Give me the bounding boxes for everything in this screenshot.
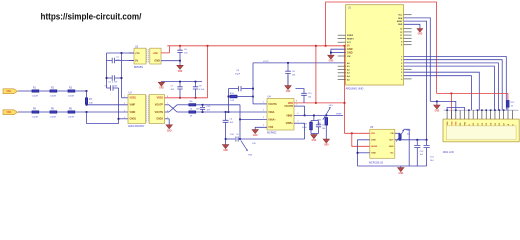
wire iso +5V rail vertical [121,53,123,98]
svg-text:SHDN: SHDN [371,146,378,148]
wire R6 to AMC pin3 VINN [75,111,128,113]
LCD pin header line [444,109,519,111]
U1 left pin stubs upper [338,34,346,36]
junction iso rail top [121,52,123,54]
wire DC-DC GND to C6 node [161,60,180,62]
U1 D0 stub [404,78,412,80]
svg-text:U4: U4 [268,95,272,98]
svg-text:VSS: VSS [447,121,449,126]
wire C4 bottom stem [225,122,227,144]
junction VREF at trimmer [325,115,327,117]
5V top loop [326,2,437,93]
wire C12 top [318,121,320,125]
wire VSS stub [255,127,267,129]
trimmer RV2 arrow [396,130,403,141]
svg-text:GND: GND [389,146,394,148]
junction gnd pins [330,52,332,54]
svg-text:10K: 10K [89,103,93,105]
svg-text:VOUTP: VOUTP [155,104,164,107]
wire SDA [404,18,431,102]
wire +Vin red up to 5V rail [168,46,170,53]
svg-text:GND: GND [159,88,164,90]
LCD pin junction dots [446,109,448,111]
trimmer RV1 arrow [323,108,330,120]
wire bottom line to R9 [177,111,189,113]
svg-text:2: 2 [124,103,125,105]
svg-text:U2: U2 [135,45,139,48]
wire feedback R row right [237,96,253,98]
svg-text:VDD2: VDD2 [157,97,164,100]
wire D1 to LCD E [404,76,472,111]
svg-text:C15: C15 [308,93,313,95]
capacitor C11 [285,71,291,73]
svg-text:VIN1: VIN1 [6,91,11,93]
ground arduino right [417,29,423,33]
svg-text:4: 4 [124,117,125,119]
wire gnd1 rail up to GND1 pin [118,88,120,124]
wire into VINA+ pin [240,118,267,120]
trimmer RV2 body [399,134,401,140]
wire R11 bottom [310,130,312,134]
wire VIN1 to R1 [18,90,32,92]
wire RV2 wiper to gnd [404,129,410,166]
svg-text:2: 2 [263,109,264,111]
svg-text:GND: GND [324,144,329,146]
capacitor C13 [414,145,420,147]
junction GND1 pin [118,118,120,120]
wire feedback vertical right [252,63,254,104]
resistor R6 [68,111,75,113]
junction C4 offset line [225,138,227,140]
wire arduino gnd pin2 [331,52,346,54]
wire R1-R2 [39,90,50,92]
junction top line at C10 [202,104,204,106]
svg-text:GND: GND [398,24,403,26]
op-amp VDD red wire [294,102,345,104]
svg-text:R4: R4 [33,108,37,110]
svg-text:VOUTA: VOUTA [268,103,277,106]
svg-text:VIN2: VIN2 [6,112,11,114]
svg-text:104: 104 [184,53,188,55]
wire SHDN red [352,133,370,146]
svg-text:10K: 10K [407,134,411,136]
junction VINB- node [304,115,306,117]
wire D5 to LCD [404,63,499,110]
ground C11 [285,86,291,90]
capacitor C4 [223,120,229,122]
svg-text:R2: R2 [51,87,55,89]
ground dc-dc input [177,65,183,69]
dc-dc converter U2 box left [134,48,146,64]
junction LCD VDD [451,93,453,95]
svg-text:C3: C3 [105,85,109,87]
wire VOUTB stub [294,105,305,107]
svg-text:OUT: OUT [389,140,394,142]
svg-text:SDA: SDA [398,17,403,20]
resistor R7 [85,98,87,104]
svg-text:R1: R1 [33,87,37,89]
svg-text:4.7uF: 4.7uF [199,89,205,91]
capacitor C12 [316,125,321,127]
junction VINA+ drop [239,119,241,121]
wire backlight drop red [507,93,509,100]
U5 gnd rail bottom [358,165,427,167]
svg-text:6: 6 [298,113,299,115]
junction 5V rail at x207 [207,45,209,47]
wire U5 gnd pin4 [358,152,370,154]
resistor R11 [310,122,313,130]
resistor R10 feedback [230,95,237,98]
wire VEE gnd stem [436,101,438,105]
wire OUT line [395,139,427,141]
resistor R1 [32,90,39,92]
wire VINA+ chain down [239,119,241,139]
junction feedback right vertical at R row [252,96,254,98]
5V vertical to MCP1501 [344,46,346,134]
wire C4 top stem [225,112,227,120]
svg-text:8: 8 [296,100,297,102]
LCD pin stubs and names [446,110,448,119]
svg-text:VOUTB: VOUTB [284,105,293,108]
wire VREF line [294,114,343,116]
wire R5-R6 [57,111,67,113]
svg-text:1nF: 1nF [207,110,211,112]
ground LCD contrast [434,105,440,109]
wire R9 to op-amp VINA- [196,111,267,113]
svg-text:GND: GND [435,110,440,112]
svg-text:NC: NC [390,153,394,155]
resistor R9 [189,111,196,113]
svg-text:R6: R6 [69,108,73,110]
wire arduino gnd pins [331,49,346,55]
svg-text:VREF: VREF [336,113,342,115]
wire to AMC pin4 GND1 [119,118,129,120]
svg-text:1uF: 1uF [420,154,424,156]
wire D4 to LCD [404,66,495,110]
svg-text:104: 104 [430,160,434,162]
wire C12 bottom [318,127,320,134]
wire feedback cap row right [242,88,253,90]
junction OUT at RV2 [399,139,401,141]
wire C1 to DC-DC pin2 [115,60,134,62]
svg-text:GND: GND [399,173,404,175]
wire VINB+ stub [294,122,305,124]
svg-text:GND1: GND1 [130,118,137,121]
wire VINB+ down [304,123,306,139]
svg-text:VINB-: VINB- [286,114,293,117]
svg-text:C7: C7 [171,86,175,88]
ground above op-amp stem [287,75,289,86]
wire gnd1 rail horizontal [87,123,119,125]
wire R3 to node A [75,90,86,92]
svg-text:1: 1 [263,101,264,103]
svg-text:C6: C6 [184,49,188,51]
svg-text:U5: U5 [370,126,374,129]
LCD1 box [443,119,519,142]
capacitor C15 [301,93,307,95]
wire top line down to VINA+ [239,105,241,120]
svg-text:R12: R12 [511,102,516,104]
junction 5V rail at op-amp branch x344 [344,45,346,47]
svg-text:GND: GND [167,130,172,132]
svg-text:+Vo: +Vo [135,51,140,55]
port VIN2 [3,110,18,115]
junction bottom line at C10 [202,111,204,113]
wire VEE contrast line [430,101,456,110]
junction VREF at R11 [313,115,315,117]
wire iso 0V horizontal to DC-DC pin2 left part [107,60,112,62]
svg-text:VEE: VEE [456,121,458,126]
svg-text:C9: C9 [236,70,240,72]
resistor R8 [189,104,196,106]
junction VINA- feedback node [228,111,230,113]
wire C10 bottom stem [202,109,204,112]
wire C8 bottom stem [195,89,197,98]
5V vertical from rail to VDD2 [207,46,209,98]
ground C4 [222,145,228,149]
svg-text:3: 3 [263,117,264,119]
junction VINA+ at offset line [239,138,241,140]
junction 5V rail to top loop [325,45,327,47]
wire R11C12 bottom row [311,133,319,135]
port VIN1 [3,89,18,94]
wire VOUTB down to VINB- [304,106,306,115]
capacitor C6 [177,50,182,52]
svg-text:0V: 0V [135,58,138,62]
svg-text:VINP: VINP [130,104,136,107]
junction VINA- at C4 stem [225,111,227,113]
LCD1 screen [446,126,516,140]
junction A0 line at C11 [287,62,289,64]
junction C2 left [106,77,108,79]
capacitor C10 [200,108,205,110]
svg-text:R5: R5 [51,108,55,110]
svg-text:MCP602: MCP602 [267,131,277,134]
svg-text:VDD: VDD [451,121,453,126]
5V rail horizontal [167,45,345,47]
ground GND2 [166,125,172,129]
wire C6 bottom stem [179,53,181,61]
svg-text:GND: GND [223,150,228,152]
wire arduino right gnd [404,24,420,28]
ground arduino left [328,55,334,59]
junction 5V rail at C6 [179,45,181,47]
wire to ground R11C12 [313,134,315,135]
svg-text:10K: 10K [230,100,234,102]
svg-text:RV1: RV1 [317,119,322,121]
junction OUT at C13 [416,139,418,141]
svg-text:15pF: 15pF [235,74,241,76]
wire D6 to LCD [404,60,503,110]
trimmer RV1 body [325,118,328,125]
svg-text:104: 104 [230,134,234,136]
svg-text:1.00M: 1.00M [68,116,74,118]
svg-text:VINA+: VINA+ [268,118,276,121]
offset line left of C5 [226,138,235,140]
svg-text:1K: 1K [511,105,514,107]
wire backlight resistor to A pin [507,107,509,110]
wire GND2 down [168,119,170,125]
U1 digital pin stubs 13-8 [404,28,412,30]
svg-text:R3: R3 [69,87,73,89]
svg-text:https://simple-circuit.com/: https://simple-circuit.com/ [41,11,142,22]
svg-text:4: 4 [263,125,264,127]
wire C7 top stem [179,82,181,87]
wire C14 top stem [426,140,428,145]
capacitor C8 [193,87,198,89]
wire C11 bottom stem [287,73,289,85]
svg-text:1.00M: 1.00M [50,95,56,97]
capacitor C5 series [236,137,238,142]
svg-text:1.00M: 1.00M [68,95,74,97]
wire R11C12 top row [311,120,319,122]
wire LCD VDD drop [450,93,452,119]
svg-text:VIN: VIN [347,56,351,58]
junction VDD2 at C7 [179,97,181,99]
junction VIN SHDN branch [351,132,353,134]
svg-text:104: 104 [171,89,175,91]
wire AREF [404,21,427,140]
wire RV1 bottom [325,125,327,139]
U1 VIN stub [338,55,346,57]
wire node B down [86,112,88,124]
junction VEE gnd [436,101,438,103]
wire C3 row right [113,87,118,89]
wire C6 node to ground [179,61,181,66]
svg-text:R11: R11 [304,123,309,125]
svg-text:50%: 50% [329,105,333,107]
svg-text:C13: C13 [420,151,425,153]
svg-text:104: 104 [308,96,312,98]
svg-text:1602 LCD: 1602 LCD [443,151,454,154]
svg-text:104: 104 [230,122,234,124]
ground reference rail [398,168,404,172]
arduino U1 box [346,5,404,85]
wire VSS RW tie [447,108,464,111]
capacitor C1 [112,58,114,63]
ground bypass rail [158,82,164,86]
svg-text:VSS: VSS [268,126,273,129]
wire C14 bottom stem [426,148,428,166]
U1 SCL stub [404,14,412,16]
isolated amplifier U3 box right [149,95,164,124]
wire C13 bottom stem [416,148,418,166]
svg-text:FB: FB [391,133,394,135]
node B junction [86,111,88,113]
wire VOUTP stub [165,104,169,106]
ground VSS [252,130,258,134]
node A junction [86,90,88,92]
svg-text:C8: C8 [199,86,203,88]
svg-text:GND: GND [312,140,317,142]
svg-text:104: 104 [292,74,296,76]
voltage reference U5 box [370,129,395,158]
svg-text:C5: C5 [236,134,240,136]
svg-text:IOREF: IOREF [347,35,354,37]
svg-text:1K: 1K [190,108,193,110]
U3 isolation dashes [147,96,149,123]
wire R4-R5 [39,111,50,113]
svg-text:MCP1501-20: MCP1501-20 [369,161,384,164]
svg-text:AMC1301DWV: AMC1301DWV [128,125,145,128]
svg-text:R7: R7 [89,99,93,101]
svg-text:RV3: RV3 [248,155,253,157]
junction VDD2 at C8 [195,97,197,99]
svg-text:VIN: VIN [371,133,375,135]
wire iso 0V rail vertical [106,53,108,88]
svg-text:GND: GND [371,153,376,155]
5V vertical to op-amp VDD [315,46,317,103]
resistor R12 backlight [507,101,509,108]
wire feedback vertical left [227,89,229,112]
trimmer wiper arrow [241,140,247,149]
junction C2 right [121,77,123,79]
junction 5V rail at x315.9 [315,45,317,47]
wire U5 gnd pins [358,140,370,166]
svg-text:VINB+: VINB+ [286,122,294,125]
capacitor C15 vdd bypass stem [303,96,305,103]
junction VDD at x315.9 [315,102,317,104]
wire cross VOUTN up [169,105,177,112]
wire C13 top stem [416,140,418,145]
svg-text:GND: GND [253,135,258,137]
wire iso +5V top horizontal to DC-DC pin1 [107,52,135,54]
resistor R2 [50,90,57,92]
capacitor C14 [424,145,430,147]
svg-text:R8: R8 [190,101,194,103]
wire VIN2 to R4 [18,111,32,113]
wire VDD2 red rail [165,97,208,99]
svg-text:R9: R9 [197,108,201,110]
svg-text:VDD1: VDD1 [130,97,137,100]
svg-text:VOUTN: VOUTN [155,111,164,114]
resistor R3 [68,90,75,92]
wire VIN red [345,132,370,134]
svg-text:VOUT: VOUT [263,61,269,63]
op-amp U4 box [267,99,294,131]
capacitor C7 [177,87,182,89]
junction OUT at AREF/C14 [426,139,428,141]
wire C8 top stem [195,82,197,87]
svg-text:GND: GND [286,91,291,93]
isolated amplifier U3 box left [128,95,146,124]
U2 pin stubs left [129,52,134,54]
wire VOUTA to feedback node [253,103,267,105]
svg-text:3: 3 [124,110,125,112]
svg-text:B0505S: B0505S [134,66,143,69]
capacitor C9 feedback [239,86,241,91]
wire feedback R row left [228,96,230,98]
junction feedback R row left [228,96,230,98]
svg-text:GND: GND [178,71,183,73]
U1 D3 stub [404,68,412,70]
wire GND2 stub [165,118,170,120]
wire RV2 bottom to OUT line [399,139,401,141]
junction feedback right at cap row [252,88,254,90]
wire C6 top stem [179,46,181,50]
svg-text:1.00M: 1.00M [50,116,56,118]
svg-text:GND: GND [371,140,376,142]
svg-text:1.00M: 1.00M [32,116,38,118]
wire C2 row right [115,77,121,79]
5V red rail to LCD [437,92,508,94]
dc-dc converter U2 box right [150,48,161,64]
wire D7 to LCD [404,57,507,111]
dc-dc isolation dashes [147,49,149,63]
svg-text:GND: GND [329,61,334,63]
svg-text:10K: 10K [317,123,321,125]
resistor R5 [50,111,57,113]
